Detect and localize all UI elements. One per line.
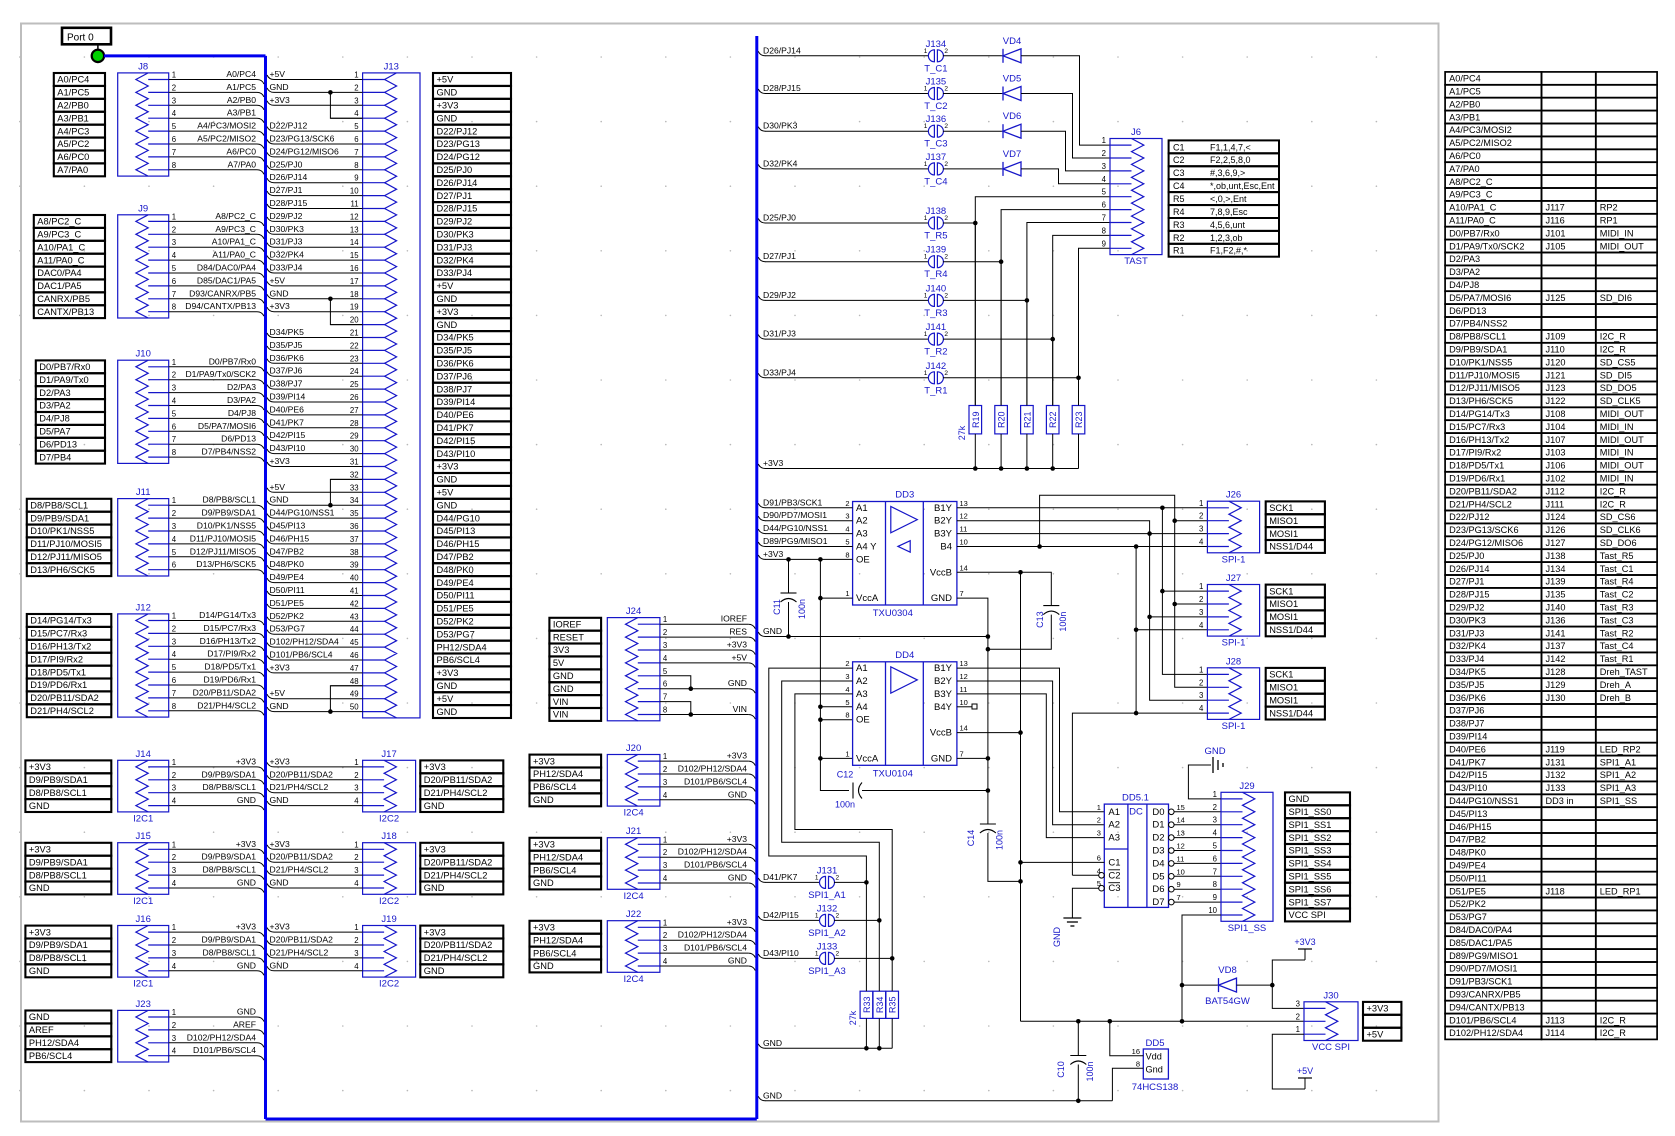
svg-text:D41/PK7: D41/PK7 xyxy=(1449,757,1486,767)
svg-text:D94/CANTX/PB13: D94/CANTX/PB13 xyxy=(1449,1002,1525,1012)
svg-text:2: 2 xyxy=(663,765,667,774)
svg-text:C12: C12 xyxy=(837,770,854,780)
svg-text:GND: GND xyxy=(29,883,50,893)
wire R33 leads xyxy=(865,882,867,991)
wire J19 D20/PB11/SDA2 xyxy=(274,944,363,946)
net label box +3V3 (J13 pin functions) xyxy=(433,666,511,679)
svg-text:4: 4 xyxy=(1102,175,1107,184)
svg-text:+3V3: +3V3 xyxy=(533,840,555,850)
svg-text:J28: J28 xyxy=(1226,656,1241,667)
svg-text:+5V: +5V xyxy=(437,75,455,85)
bus right vertical xyxy=(755,36,758,1119)
svg-text:C1: C1 xyxy=(1108,857,1120,868)
svg-text:D10/PK1/NSS5: D10/PK1/NSS5 xyxy=(197,521,256,531)
net label box GND (J13 pin functions) xyxy=(433,112,511,125)
svg-text:J110: J110 xyxy=(1546,345,1565,355)
net label box A2/PB0 (J8) xyxy=(54,99,105,112)
svg-text:D34/PK5: D34/PK5 xyxy=(1449,667,1486,677)
svg-text:T_R5: T_R5 xyxy=(924,231,947,242)
svg-text:D40/PE6: D40/PE6 xyxy=(437,410,474,420)
wire GND jog pin34-pin32 xyxy=(330,479,362,505)
svg-text:D19/PD6/Rx1: D19/PD6/Rx1 xyxy=(30,680,87,690)
net label box D8/PB8/SCL1 (J11) xyxy=(27,499,112,512)
svg-text:47: 47 xyxy=(350,664,359,673)
svg-text:D1/PA9/Tx0/SCK2: D1/PA9/Tx0/SCK2 xyxy=(185,369,256,379)
svg-text:SD_CLK5: SD_CLK5 xyxy=(1600,396,1641,406)
net label box MOSI1 (J26) xyxy=(1266,527,1325,540)
svg-text:J133: J133 xyxy=(1546,783,1566,793)
wire C3inv to GND symbol xyxy=(1072,888,1098,918)
wire J23 AREF xyxy=(169,1029,257,1031)
svg-text:2: 2 xyxy=(944,292,948,299)
wire R34 leads xyxy=(878,920,880,991)
wire J20 D102/PH12/SDA4 xyxy=(660,773,748,775)
svg-text:GND: GND xyxy=(237,878,256,888)
svg-text:3: 3 xyxy=(354,866,358,875)
svg-text:MIDI_OUT: MIDI_OUT xyxy=(1600,409,1644,419)
wire GND rail xyxy=(758,632,765,637)
svg-text:21: 21 xyxy=(350,329,359,338)
svg-text:I2C4: I2C4 xyxy=(624,891,644,902)
svg-text:B3Y: B3Y xyxy=(934,689,953,700)
bus bottom horizontal xyxy=(266,1118,757,1121)
svg-text:1: 1 xyxy=(1296,1025,1300,1034)
wire J12 D21/PH4/SCL2 xyxy=(169,710,257,712)
wire J13 pin46 D101/PB6/SCL4 xyxy=(274,659,363,661)
svg-text:D9/PB9/SDA1: D9/PB9/SDA1 xyxy=(29,857,88,867)
resistor R33 27k xyxy=(860,991,873,1018)
svg-text:J142: J142 xyxy=(1546,654,1566,664)
svg-text:2: 2 xyxy=(1102,149,1106,158)
svg-text:R34: R34 xyxy=(875,997,885,1014)
svg-text:2: 2 xyxy=(944,215,948,222)
svg-text:GND: GND xyxy=(270,288,289,298)
svg-text:I2C1: I2C1 xyxy=(133,813,153,824)
net label box GND (J19) xyxy=(420,964,503,977)
svg-text:D20/PB11/SDA2: D20/PB11/SDA2 xyxy=(270,935,334,945)
svg-text:B4Y: B4Y xyxy=(934,702,953,713)
svg-text:D39/PI14: D39/PI14 xyxy=(437,397,476,407)
table TAST key matrix xyxy=(1169,140,1279,153)
svg-text:VD5: VD5 xyxy=(1003,74,1021,85)
svg-text:D16/PH13/Tx2: D16/PH13/Tx2 xyxy=(30,642,91,652)
wire J13 pin6 D23/PG13/SCK6 xyxy=(274,143,363,145)
svg-text:1: 1 xyxy=(663,835,667,844)
wire +3V3 rail under resistors xyxy=(758,464,765,469)
resistor R20 xyxy=(995,406,1008,434)
net label box D5/PA7 (J10) xyxy=(36,425,105,438)
svg-text:5: 5 xyxy=(172,122,177,131)
svg-text:4: 4 xyxy=(845,525,849,534)
wire B1Y to J26.1 xyxy=(957,507,1208,509)
wire D90/PD7/MOSI1 xyxy=(758,516,765,521)
svg-text:8: 8 xyxy=(845,550,849,559)
svg-text:D20/PB11/SDA2: D20/PB11/SDA2 xyxy=(424,775,493,785)
net label box D30/PK3 (J13 pin functions) xyxy=(433,228,511,241)
wire J13 pin26 D39/PI14 xyxy=(274,401,363,403)
svg-text:11: 11 xyxy=(960,525,968,534)
svg-text:D13/PH6/SCK5: D13/PH6/SCK5 xyxy=(1449,396,1513,406)
connector J15 xyxy=(118,843,169,895)
wire D91/PB3/SCK1 xyxy=(758,503,765,508)
svg-text:MIDI_IN: MIDI_IN xyxy=(1600,228,1634,238)
svg-text:MISO1: MISO1 xyxy=(1269,516,1298,526)
wire DD4 A3 to SPI1_A3 xyxy=(795,694,892,959)
jumper J135 xyxy=(928,88,934,100)
svg-text:D22/PJ12: D22/PJ12 xyxy=(1449,512,1489,522)
net label box +3V3 (J20) xyxy=(530,755,602,768)
svg-text:SCK1: SCK1 xyxy=(1269,503,1293,513)
svg-text:2: 2 xyxy=(1213,803,1217,812)
net label box D24/PG12 (J13 pin functions) xyxy=(433,151,511,164)
IC DD5 74HCS138 power xyxy=(1143,1049,1168,1079)
net label box D52/PK2 (J13 pin functions) xyxy=(433,615,511,628)
wire D32/PK4 xyxy=(758,164,765,169)
svg-text:+5V: +5V xyxy=(437,694,455,704)
svg-text:J22: J22 xyxy=(626,909,641,920)
svg-text:D41/PK7: D41/PK7 xyxy=(437,423,474,433)
svg-text:11: 11 xyxy=(1177,854,1185,863)
svg-text:+3V3: +3V3 xyxy=(533,923,555,933)
net label box A11/PA0_C (J9) xyxy=(34,254,105,267)
svg-text:D102/PH12/SDA4: D102/PH12/SDA4 xyxy=(1449,1028,1523,1038)
svg-text:RES: RES xyxy=(729,627,747,637)
wire VD8 to J30 pin3 xyxy=(1272,985,1304,1008)
svg-text:D13/PH6/SCK5: D13/PH6/SCK5 xyxy=(196,559,256,569)
connector J12 xyxy=(118,614,169,717)
svg-text:D3: D3 xyxy=(1152,846,1164,857)
svg-text:D84/DAC0/PA4: D84/DAC0/PA4 xyxy=(197,263,256,273)
svg-text:SPI1_A3: SPI1_A3 xyxy=(808,966,846,977)
svg-text:5: 5 xyxy=(172,409,177,418)
svg-text:A6/PC0: A6/PC0 xyxy=(57,152,89,162)
net label box GND (J14) xyxy=(25,799,111,812)
svg-text:J124: J124 xyxy=(1546,512,1566,522)
svg-text:MIDI_IN: MIDI_IN xyxy=(1600,448,1634,458)
svg-text:D21/PH4/SCL2: D21/PH4/SCL2 xyxy=(30,706,94,716)
net label box +3V3 (J30) xyxy=(1363,1002,1401,1015)
svg-text:J135: J135 xyxy=(1546,590,1566,600)
svg-text:PB6/SCL4: PB6/SCL4 xyxy=(533,948,576,958)
resistor R34 xyxy=(873,991,886,1018)
svg-text:DD4: DD4 xyxy=(895,650,914,661)
net label box D9/PB9/SDA1 (J15) xyxy=(25,856,111,869)
svg-text:D31/PJ3: D31/PJ3 xyxy=(1449,628,1484,638)
svg-text:48: 48 xyxy=(350,677,359,686)
svg-text:D30/PK3: D30/PK3 xyxy=(1449,615,1486,625)
svg-text:2: 2 xyxy=(1199,595,1203,604)
power +5V below J30 xyxy=(1272,1034,1305,1089)
svg-text:VD6: VD6 xyxy=(1003,111,1021,122)
svg-text:1: 1 xyxy=(172,358,176,367)
svg-text:A9/PC3_C: A9/PC3_C xyxy=(37,230,81,240)
wire J13 pin19 +3V3 xyxy=(274,311,363,313)
net label box D0/PB7/Rx0 (J10) xyxy=(36,360,105,373)
net label box SCK1 (J26) xyxy=(1266,501,1325,514)
svg-text:2: 2 xyxy=(172,936,176,945)
svg-text:R1: R1 xyxy=(1173,246,1185,256)
svg-text:D49/PE4: D49/PE4 xyxy=(270,572,305,582)
svg-text:CANRX/PB5: CANRX/PB5 xyxy=(37,294,90,304)
wire J140 to column xyxy=(943,299,1027,301)
wire J13 pin32 xyxy=(330,478,362,480)
svg-text:J16: J16 xyxy=(136,914,151,925)
svg-text:1: 1 xyxy=(172,212,176,221)
svg-text:7,8,9,Esc: 7,8,9,Esc xyxy=(1210,207,1248,217)
svg-text:D102/PH12/SDA4: D102/PH12/SDA4 xyxy=(678,847,747,857)
power +3V3 above J30 xyxy=(1272,960,1305,985)
svg-text:32: 32 xyxy=(350,470,359,479)
svg-text:GND: GND xyxy=(437,88,458,98)
net label box D11/PJ10/MOSI5 (J11) xyxy=(27,537,112,550)
svg-text:D32/PK4: D32/PK4 xyxy=(437,255,474,265)
svg-text:D49/PE4: D49/PE4 xyxy=(1449,861,1486,871)
svg-text:D32/PK4: D32/PK4 xyxy=(763,158,798,168)
svg-text:4: 4 xyxy=(354,797,359,806)
svg-text:D30/PK3: D30/PK3 xyxy=(763,121,798,131)
svg-text:J138: J138 xyxy=(1546,551,1566,561)
connector J9 xyxy=(118,215,169,318)
svg-text:J112: J112 xyxy=(1546,486,1565,496)
svg-text:D17/PI9/Rx2: D17/PI9/Rx2 xyxy=(1449,448,1501,458)
svg-text:3: 3 xyxy=(172,238,176,247)
svg-text:1: 1 xyxy=(924,215,928,222)
wire J13 pin50 GND xyxy=(274,711,363,713)
wire J12 D17/PI9/Rx2 xyxy=(169,658,257,660)
svg-text:D7/PB4: D7/PB4 xyxy=(39,452,71,462)
net label box PB6/SCL4 (J20) xyxy=(530,780,602,793)
svg-text:D101/PB6/SCL4: D101/PB6/SCL4 xyxy=(270,650,333,660)
svg-text:9: 9 xyxy=(1213,893,1217,902)
wire D26/PJ14 xyxy=(758,51,765,56)
svg-text:D43/PI10: D43/PI10 xyxy=(437,449,476,459)
svg-text:GND: GND xyxy=(29,966,50,976)
svg-text:Tast_C1: Tast_C1 xyxy=(1600,564,1634,574)
connector J24 xyxy=(607,618,660,721)
svg-text:OE: OE xyxy=(856,554,870,565)
svg-text:A3: A3 xyxy=(856,529,868,540)
net label box A4/PC3 (J8) xyxy=(54,125,105,138)
svg-text:100n: 100n xyxy=(797,599,807,619)
wire J24 pin7 jog xyxy=(660,702,691,715)
connector J19 xyxy=(363,926,416,978)
svg-text:4: 4 xyxy=(172,251,177,260)
wire J11 D10/PK1/NSS5 xyxy=(169,530,257,532)
svg-text:SCK1: SCK1 xyxy=(1269,670,1293,680)
ground symbol below DD5.1 xyxy=(1063,917,1081,919)
svg-text:100n: 100n xyxy=(995,830,1005,850)
svg-text:IOREF: IOREF xyxy=(553,619,582,629)
svg-text:29: 29 xyxy=(350,432,359,441)
svg-text:J137: J137 xyxy=(926,152,947,163)
svg-text:J134: J134 xyxy=(1546,564,1566,574)
svg-text:2: 2 xyxy=(944,48,948,55)
svg-text:6: 6 xyxy=(172,561,176,570)
wire D27/PJ1 xyxy=(758,257,765,262)
wire vertical MOSI1 chain xyxy=(1150,534,1208,701)
svg-text:R35: R35 xyxy=(888,997,898,1014)
wire J15 D8/PB8/SCL1 xyxy=(169,874,257,876)
svg-text:+3V3: +3V3 xyxy=(270,839,291,849)
wire J9 A9/PC3_C xyxy=(169,233,257,235)
wire J11 D11/PJ10/MOSI5 xyxy=(169,543,257,545)
svg-text:A10/PA1_C: A10/PA1_C xyxy=(212,237,256,247)
svg-text:4: 4 xyxy=(172,962,177,971)
svg-text:1: 1 xyxy=(924,86,928,93)
svg-text:3: 3 xyxy=(1199,691,1203,700)
jumper J132 xyxy=(820,914,826,926)
svg-text:D13/PH6/SCK5: D13/PH6/SCK5 xyxy=(30,565,95,575)
wire J13 pin35 D44/PG10/NSS1 xyxy=(274,517,363,519)
svg-text:D45/PI13: D45/PI13 xyxy=(270,521,306,531)
svg-text:D5/PA7/MOSI6: D5/PA7/MOSI6 xyxy=(198,421,256,431)
svg-text:3: 3 xyxy=(1102,162,1106,171)
svg-text:D39/PI14: D39/PI14 xyxy=(1449,732,1487,742)
net label box PH12/SDA4 (J22) xyxy=(530,934,602,947)
net label box VIN (J24) xyxy=(549,695,601,708)
svg-text:D101/PB6/SCL4: D101/PB6/SCL4 xyxy=(193,1045,256,1055)
svg-text:A11/PA0_C: A11/PA0_C xyxy=(1449,216,1496,226)
wire J13 pin49 +5V xyxy=(274,698,363,700)
svg-text:VIN: VIN xyxy=(553,697,569,707)
svg-text:J136: J136 xyxy=(926,114,947,125)
svg-text:GND: GND xyxy=(270,960,289,970)
svg-text:16: 16 xyxy=(1132,1047,1140,1056)
svg-text:+3V3: +3V3 xyxy=(270,662,291,672)
svg-text:3: 3 xyxy=(172,1034,176,1043)
svg-text:D101/PB6/SCL4: D101/PB6/SCL4 xyxy=(684,943,747,953)
svg-text:5: 5 xyxy=(354,122,359,131)
net label box 5V (J24) xyxy=(549,657,601,670)
svg-text:+3V3: +3V3 xyxy=(1367,1004,1389,1014)
svg-text:Tast_R2: Tast_R2 xyxy=(1600,628,1634,638)
svg-text:D21/PH4/SCL2: D21/PH4/SCL2 xyxy=(424,870,488,880)
wire J12 D15/PC7/Rx3 xyxy=(169,632,257,634)
svg-text:A4: A4 xyxy=(856,702,868,713)
wire J138 junction to R19 xyxy=(974,223,976,406)
capacitor C14 100n xyxy=(980,823,996,825)
svg-text:B1Y: B1Y xyxy=(934,663,953,674)
svg-text:D4/PJ8: D4/PJ8 xyxy=(228,408,256,418)
svg-text:4,5,6,unt: 4,5,6,unt xyxy=(1210,220,1246,230)
svg-text:GND: GND xyxy=(533,878,554,888)
net label box D42/PI15 (J13 pin functions) xyxy=(433,434,511,447)
svg-text:J20: J20 xyxy=(626,743,641,754)
net label box D20/PB11/SDA2 (J17) xyxy=(420,773,503,786)
svg-text:10: 10 xyxy=(1208,906,1217,915)
svg-text:D42/PI15: D42/PI15 xyxy=(763,910,799,920)
wire D30/PK3 xyxy=(758,127,765,132)
svg-text:D28/PJ15: D28/PJ15 xyxy=(1449,590,1489,600)
svg-text:MIDI_IN: MIDI_IN xyxy=(1600,422,1634,432)
svg-text:GND: GND xyxy=(763,1038,782,1048)
svg-text:MIDI_OUT: MIDI_OUT xyxy=(1600,241,1644,251)
svg-text:A8/PC2_C: A8/PC2_C xyxy=(215,211,256,221)
connector J8 xyxy=(118,73,169,176)
svg-text:A0/PC4: A0/PC4 xyxy=(226,69,256,79)
wire J132 to pullup xyxy=(834,919,879,921)
svg-text:GND: GND xyxy=(437,707,458,717)
svg-text:D27/PJ1: D27/PJ1 xyxy=(763,251,796,261)
svg-text:SPI1_A2: SPI1_A2 xyxy=(808,928,846,939)
svg-text:6: 6 xyxy=(1102,201,1106,210)
svg-text:1: 1 xyxy=(845,749,849,758)
svg-text:SD_DI6: SD_DI6 xyxy=(1600,293,1632,303)
svg-text:D33/PJ4: D33/PJ4 xyxy=(437,268,473,278)
net label box GND (J13 pin functions) xyxy=(433,679,511,692)
svg-text:5: 5 xyxy=(1102,188,1107,197)
svg-text:GND: GND xyxy=(763,626,782,636)
svg-text:1: 1 xyxy=(924,48,928,55)
svg-text:D26/PJ14: D26/PJ14 xyxy=(437,178,478,188)
svg-text:A9/PC3_C: A9/PC3_C xyxy=(1449,190,1493,200)
svg-text:100n: 100n xyxy=(835,800,855,810)
net label box D25/PJ0 (J13 pin functions) xyxy=(433,163,511,176)
svg-text:J6: J6 xyxy=(1131,127,1141,138)
wire J136 to VD6 xyxy=(943,130,1003,132)
wire J20 D101/PB6/SCL4 xyxy=(660,786,748,788)
svg-text:J138: J138 xyxy=(926,206,947,217)
svg-text:A11/PA0_C: A11/PA0_C xyxy=(212,250,256,260)
svg-text:I2C_R: I2C_R xyxy=(1600,486,1626,496)
svg-text:D28/PJ15: D28/PJ15 xyxy=(763,83,801,93)
svg-text:GND: GND xyxy=(424,966,445,976)
svg-text:D12/PJ11/MISO5: D12/PJ11/MISO5 xyxy=(190,546,256,556)
svg-text:5: 5 xyxy=(172,663,177,672)
svg-text:D33/PJ4: D33/PJ4 xyxy=(763,367,796,377)
jumper J140 xyxy=(928,294,934,306)
net label box GND (J13 pin functions) xyxy=(433,499,511,512)
svg-text:1: 1 xyxy=(924,331,928,338)
net label box D17/PI9/Rx2 (J12) xyxy=(27,653,112,666)
wire J13 pin1 +5V xyxy=(274,79,363,81)
wire vertical NSS1 chain xyxy=(1135,547,1137,714)
connector J16 xyxy=(118,926,169,978)
svg-text:D29/PJ2: D29/PJ2 xyxy=(437,217,473,227)
svg-text:Dreh_A: Dreh_A xyxy=(1600,680,1632,690)
svg-text:12: 12 xyxy=(1177,842,1185,851)
wire VccB net vertical xyxy=(1020,572,1022,1021)
svg-text:D1/PA9/Tx0/SCK2: D1/PA9/Tx0/SCK2 xyxy=(1449,241,1524,251)
svg-text:+3V3: +3V3 xyxy=(424,927,446,937)
svg-text:D31/PJ3: D31/PJ3 xyxy=(270,237,303,247)
wire C2inv to J28.4 row xyxy=(1072,874,1098,876)
net label box D13/PH6/SCK5 (J11) xyxy=(27,563,112,576)
wire J13 pin15 D32/PK4 xyxy=(274,259,363,261)
svg-text:D26/PJ14: D26/PJ14 xyxy=(270,172,308,182)
svg-text:1: 1 xyxy=(924,123,928,130)
svg-text:D18/PD5/Tx1: D18/PD5/Tx1 xyxy=(30,667,86,677)
svg-text:D0/PB7/Rx0: D0/PB7/Rx0 xyxy=(209,356,257,366)
svg-text:D7: D7 xyxy=(1152,897,1164,908)
svg-text:D11/PJ10/MOSI5: D11/PJ10/MOSI5 xyxy=(190,533,256,543)
svg-text:GND: GND xyxy=(728,789,747,799)
svg-text:D21/PH4/SCL2: D21/PH4/SCL2 xyxy=(197,700,256,710)
net label box D10/PK1/NSS5 (J11) xyxy=(27,525,112,538)
svg-text:D44/PG10/NSS1: D44/PG10/NSS1 xyxy=(763,523,828,533)
wire GND jog pin2-pin4 xyxy=(330,92,362,118)
net label box D19/PD6/Rx1 (J12) xyxy=(27,679,112,692)
net label box D36/PK6 (J13 pin functions) xyxy=(433,357,511,370)
net label box GND (J15) xyxy=(25,882,111,895)
wire J12 D19/PD6/Rx1 xyxy=(169,684,257,686)
svg-text:D36/PK6: D36/PK6 xyxy=(437,359,474,369)
svg-text:D16/PH13/Tx2: D16/PH13/Tx2 xyxy=(200,636,257,646)
svg-text:A2: A2 xyxy=(856,676,868,687)
svg-text:+5V: +5V xyxy=(731,652,747,662)
svg-text:J121: J121 xyxy=(1546,370,1566,380)
svg-text:D48/PK0: D48/PK0 xyxy=(1449,848,1486,858)
